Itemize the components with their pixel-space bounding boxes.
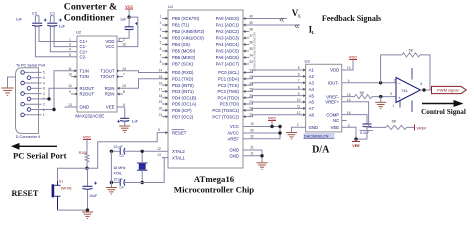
svg-text:PB3 (AIN1/OC0): PB3 (AIN1/OC0) bbox=[172, 36, 204, 41]
wire U1 PC3 to U3 A4 bbox=[249, 89, 301, 91]
svg-text:16 MHz: 16 MHz bbox=[113, 166, 126, 170]
opamp power pins bbox=[411, 68, 413, 80]
svg-text:1: 1 bbox=[393, 104, 395, 108]
svg-text:Control Signal: Control Signal bbox=[421, 108, 466, 116]
svg-text:35: 35 bbox=[249, 47, 253, 51]
svg-text:PC6 (TOSC1): PC6 (TOSC1) bbox=[212, 108, 239, 113]
svg-text:Conditioner: Conditioner bbox=[64, 12, 115, 23]
wire PA0 to VL bbox=[249, 18, 287, 20]
svg-text:PA6 (ADC6): PA6 (ADC6) bbox=[216, 55, 240, 60]
wire opamp output bbox=[420, 89, 434, 91]
svg-text:PA1 (ADC1): PA1 (ADC1) bbox=[216, 23, 240, 28]
svg-text:14: 14 bbox=[122, 67, 126, 71]
svg-text:AVCC: AVCC bbox=[227, 131, 239, 136]
ground (U3) bbox=[286, 133, 297, 140]
svg-text:PD3 (INT1): PD3 (INT1) bbox=[172, 89, 194, 94]
wire U3 COMP to cap bbox=[347, 115, 367, 124]
svg-text:PD7 (OC2): PD7 (OC2) bbox=[172, 114, 194, 119]
svg-text:A5: A5 bbox=[309, 93, 315, 98]
svg-text:13: 13 bbox=[68, 103, 72, 107]
svg-text:33: 33 bbox=[249, 60, 253, 64]
svg-text:37: 37 bbox=[249, 34, 253, 38]
U3 part label DAC0808LCN bbox=[304, 133, 335, 138]
svg-text:21: 21 bbox=[159, 113, 163, 117]
svg-text:7: 7 bbox=[123, 73, 125, 77]
svg-text:16: 16 bbox=[159, 81, 163, 85]
svg-text:PD6 (ICP): PD6 (ICP) bbox=[172, 108, 192, 113]
IC U2 MAX232ACSE box bbox=[77, 36, 117, 112]
svg-text:IOUT-: IOUT- bbox=[328, 81, 340, 86]
ground (crystal) bbox=[106, 188, 117, 195]
capacitor 1uF (U2 V-) bbox=[120, 118, 129, 121]
svg-text:3: 3 bbox=[43, 92, 45, 96]
ground (reset) bbox=[82, 212, 93, 219]
J1 pin circle right 3 bbox=[27, 97, 31, 101]
node U2 VCC junction bbox=[127, 15, 130, 18]
svg-text:VREF+: VREF+ bbox=[325, 100, 339, 105]
power VCC (U3 VDD) bbox=[349, 55, 357, 59]
svg-text:A2: A2 bbox=[309, 74, 315, 79]
capacitor C4 10uF bbox=[87, 168, 89, 186]
svg-text:30: 30 bbox=[250, 129, 254, 133]
control signal arrow bbox=[422, 103, 455, 105]
wire U1 VCC/AVCC/AREF join bbox=[249, 127, 280, 139]
svg-text:9: 9 bbox=[43, 76, 45, 80]
svg-text:4: 4 bbox=[69, 48, 71, 52]
svg-text:VDD: VDD bbox=[330, 68, 339, 73]
svg-text:VCC: VCC bbox=[230, 124, 239, 129]
svg-text:T1OUT: T1OUT bbox=[100, 68, 114, 73]
wire C2 left leg to U2 C2- bbox=[34, 16, 36, 24]
wire U1 PC6 to U3 A7 bbox=[249, 108, 301, 110]
svg-text:13: 13 bbox=[157, 153, 161, 157]
svg-text:S1: S1 bbox=[59, 180, 63, 184]
svg-text:9: 9 bbox=[158, 128, 160, 132]
opamp pin 1 stub bbox=[399, 101, 401, 108]
svg-text:VCC: VCC bbox=[349, 55, 357, 59]
wire U3 GND to ground bbox=[292, 127, 301, 132]
svg-text:PA2 (ADC2): PA2 (ADC2) bbox=[216, 29, 240, 34]
svg-text:13: 13 bbox=[122, 84, 126, 88]
J1 pin circle left 3 bbox=[21, 92, 25, 96]
ground (U1) bbox=[257, 163, 268, 170]
wire VCC node to U2 VCC pin16 bbox=[123, 17, 138, 46]
svg-text:Converter &: Converter & bbox=[64, 1, 117, 12]
J1 pin circle left 5 bbox=[21, 113, 25, 117]
svg-text:2: 2 bbox=[160, 21, 162, 25]
IC U3 DAC0808 box bbox=[306, 64, 342, 132]
svg-text:«: « bbox=[279, 14, 284, 24]
svg-text:PB2 (AIN0/INT2): PB2 (AIN0/INT2) bbox=[172, 29, 205, 34]
J1 pin circle right 2 bbox=[27, 87, 31, 91]
svg-text:PB1 (T1): PB1 (T1) bbox=[172, 23, 190, 28]
svg-text:4: 4 bbox=[160, 34, 162, 38]
power VCC (U2 supply) bbox=[125, 5, 133, 9]
svg-text:12: 12 bbox=[68, 84, 72, 88]
svg-text:PC7 (TOSC2): PC7 (TOSC2) bbox=[212, 114, 239, 119]
svg-text:PA0 (ADC0): PA0 (ADC0) bbox=[216, 16, 240, 21]
wire PA1 to IL bbox=[249, 24, 300, 26]
svg-text:5: 5 bbox=[69, 53, 71, 57]
svg-text:38: 38 bbox=[249, 28, 253, 32]
power VCC (U1) bbox=[268, 116, 276, 120]
wire J1 shield to ground bbox=[8, 77, 16, 88]
svg-text:7: 7 bbox=[160, 54, 162, 58]
svg-text:VEE: VEE bbox=[106, 105, 115, 110]
svg-text:T1IN: T1IN bbox=[80, 68, 89, 73]
svg-text:5K: 5K bbox=[409, 49, 414, 53]
svg-text:VCC: VCC bbox=[268, 116, 276, 120]
svg-text:RESET: RESET bbox=[172, 130, 187, 135]
svg-text:PWM signal: PWM signal bbox=[437, 88, 458, 93]
wire U1 GND join bbox=[249, 150, 262, 156]
svg-text:19: 19 bbox=[159, 100, 163, 104]
svg-text:PD2 (INT0): PD2 (INT0) bbox=[172, 83, 194, 88]
svg-text:A3: A3 bbox=[309, 81, 315, 86]
svg-text:L: L bbox=[298, 14, 301, 19]
wire U1 PC5 to U3 A6 bbox=[249, 102, 301, 104]
svg-text:5K: 5K bbox=[392, 120, 397, 124]
svg-text:PC3 (TMS): PC3 (TMS) bbox=[218, 89, 240, 94]
svg-text:1uF: 1uF bbox=[132, 119, 139, 123]
svg-text:XTAL2: XTAL2 bbox=[172, 149, 185, 154]
svg-text:PD4 (OC1B): PD4 (OC1B) bbox=[172, 95, 197, 100]
svg-text:PD5 (OC1A): PD5 (OC1A) bbox=[172, 102, 197, 107]
svg-text:6: 6 bbox=[123, 103, 125, 107]
svg-text:PB4 (SS): PB4 (SS) bbox=[172, 42, 190, 47]
J1 pin circle left 2 bbox=[21, 81, 25, 85]
svg-text:GND: GND bbox=[229, 154, 239, 159]
svg-text:R2IN: R2IN bbox=[105, 92, 115, 97]
svg-text:22 pF: 22 pF bbox=[114, 145, 124, 149]
wire C1 left leg to U2 C2+ bbox=[49, 16, 51, 24]
svg-text:VREF: VREF bbox=[417, 126, 428, 130]
svg-text:4: 4 bbox=[43, 81, 45, 85]
svg-text:5: 5 bbox=[160, 41, 162, 45]
svg-text:9: 9 bbox=[69, 90, 71, 94]
svg-text:Feedback Signals: Feedback Signals bbox=[322, 14, 381, 23]
svg-text:−: − bbox=[398, 81, 401, 86]
svg-text:U1: U1 bbox=[168, 4, 174, 9]
svg-text:A7: A7 bbox=[309, 106, 315, 111]
svg-text:741: 741 bbox=[401, 88, 408, 93]
svg-text:ATmega16: ATmega16 bbox=[194, 174, 235, 184]
svg-text:2: 2 bbox=[394, 78, 396, 82]
svg-text:6: 6 bbox=[160, 47, 162, 51]
svg-text:+: + bbox=[398, 96, 401, 101]
wire U1 PC2 to U3 A3 bbox=[249, 83, 301, 85]
svg-text:PC2 (TCK): PC2 (TCK) bbox=[218, 83, 240, 88]
svg-text:PA3 (ADC3): PA3 (ADC3) bbox=[216, 36, 240, 41]
svg-text:PA7 (ADC7): PA7 (ADC7) bbox=[216, 62, 240, 67]
svg-text:C3: C3 bbox=[120, 154, 124, 158]
svg-text:11: 11 bbox=[68, 67, 72, 71]
svg-text:PB7 (SCK): PB7 (SCK) bbox=[172, 62, 194, 67]
svg-text:PC0 (SCL): PC0 (SCL) bbox=[218, 70, 239, 75]
svg-text:12: 12 bbox=[157, 147, 161, 151]
svg-text:Microcontroller Chip: Microcontroller Chip bbox=[174, 184, 254, 194]
wire U1 PC1 to U3 A2 bbox=[249, 76, 301, 78]
svg-text:PB5 (MOSI): PB5 (MOSI) bbox=[172, 49, 196, 54]
svg-text:34: 34 bbox=[249, 54, 253, 58]
svg-text:C1: C1 bbox=[50, 11, 56, 16]
svg-text:2: 2 bbox=[43, 103, 45, 107]
svg-text:1: 1 bbox=[69, 38, 71, 42]
node reset junction bbox=[85, 167, 88, 170]
wire C2 right leg to U2 C1+ bbox=[39, 27, 71, 42]
svg-text:PD0 (RXD): PD0 (RXD) bbox=[172, 70, 194, 75]
svg-text:D/A: D/A bbox=[312, 145, 330, 156]
svg-text:10: 10 bbox=[250, 122, 254, 126]
wire U2 T1OUT to U1 PD0 bbox=[123, 71, 162, 73]
wire switch bottom rail bbox=[58, 209, 88, 211]
svg-text:A4: A4 bbox=[309, 87, 315, 92]
svg-text:T2IN: T2IN bbox=[80, 74, 89, 79]
svg-text:2: 2 bbox=[297, 123, 299, 127]
J1 pin circle left 1 bbox=[21, 71, 25, 75]
svg-text:U2: U2 bbox=[76, 30, 82, 35]
wire U3 IOUT- to opamp inverting input bbox=[347, 82, 396, 84]
svg-text:AREF: AREF bbox=[228, 137, 240, 142]
svg-text:T2OUT: T2OUT bbox=[100, 74, 114, 79]
svg-text:NC: NC bbox=[333, 118, 339, 123]
svg-text:1uF: 1uF bbox=[59, 25, 66, 29]
wire reset node to U1 RESET pin9 bbox=[87, 133, 162, 169]
svg-text:6: 6 bbox=[420, 82, 422, 86]
svg-text:3: 3 bbox=[390, 92, 392, 96]
svg-text:A1: A1 bbox=[309, 68, 315, 73]
svg-text:A8: A8 bbox=[309, 113, 315, 118]
svg-text:PA5 (ADC5): PA5 (ADC5) bbox=[216, 49, 240, 54]
svg-text:ADC7: ADC7 bbox=[253, 65, 257, 72]
svg-text:10uF: 10uF bbox=[89, 194, 98, 198]
svg-text:PC5 (TDI): PC5 (TDI) bbox=[220, 102, 240, 107]
net flag PWM signal bbox=[432, 86, 467, 93]
svg-text:DAC0808LCN: DAC0808LCN bbox=[304, 133, 329, 138]
svg-text:8: 8 bbox=[123, 90, 125, 94]
svg-text:22 pF: 22 pF bbox=[114, 178, 124, 182]
svg-text:MAX232ACSE: MAX232ACSE bbox=[75, 113, 104, 118]
arrow to PC serial port bbox=[18, 145, 57, 147]
wire U2 GND stub bbox=[65, 106, 72, 108]
wire U1 PC7 to U3 A8 bbox=[249, 115, 301, 117]
svg-text:D Connector 9: D Connector 9 bbox=[16, 135, 40, 139]
svg-text:PC Serial Port: PC Serial Port bbox=[13, 151, 67, 161]
svg-text:1uF: 1uF bbox=[120, 18, 127, 22]
svg-text:PC4 (TDO): PC4 (TDO) bbox=[218, 95, 240, 100]
wire U3 VEE down bbox=[347, 127, 356, 139]
svg-text:PD1 (TXD): PD1 (TXD) bbox=[172, 77, 194, 82]
svg-text:3: 3 bbox=[69, 43, 71, 47]
svg-text:U3: U3 bbox=[305, 59, 311, 64]
svg-text:GND: GND bbox=[309, 125, 319, 130]
svg-text:36: 36 bbox=[249, 41, 253, 45]
wire J1 pin6 to U2 T1IN bbox=[42, 71, 72, 110]
svg-text:VEE: VEE bbox=[352, 144, 360, 148]
wire cap to U2 VDD pin2 bbox=[119, 31, 129, 42]
svg-text:5: 5 bbox=[43, 71, 45, 75]
svg-text:C4: C4 bbox=[120, 185, 124, 189]
svg-text:8: 8 bbox=[43, 87, 45, 91]
svg-text:PB6 (MISO): PB6 (MISO) bbox=[172, 55, 196, 60]
svg-text:20: 20 bbox=[159, 107, 163, 111]
svg-text:1: 1 bbox=[160, 15, 162, 19]
svg-text:PA4 (ADC4): PA4 (ADC4) bbox=[216, 42, 240, 47]
svg-text:COMP: COMP bbox=[326, 112, 339, 117]
J1 pin circle right 1 bbox=[27, 76, 31, 80]
svg-text:PB0 (XCK/T0): PB0 (XCK/T0) bbox=[172, 16, 200, 21]
svg-text:C2: C2 bbox=[32, 11, 38, 16]
J1 pin circle right 4 bbox=[27, 108, 31, 112]
svg-text:PC1 (SDA): PC1 (SDA) bbox=[218, 77, 240, 82]
svg-text:GND: GND bbox=[80, 105, 90, 110]
svg-text:To PC Serial Port: To PC Serial Port bbox=[16, 63, 46, 67]
svg-text:«: « bbox=[295, 20, 300, 30]
ground (opamp + input) bbox=[380, 97, 382, 103]
ground (J1 shield) bbox=[1, 88, 13, 95]
svg-text:31: 31 bbox=[250, 146, 254, 150]
svg-text:GND: GND bbox=[229, 148, 239, 153]
svg-text:0.1uF: 0.1uF bbox=[360, 131, 370, 135]
wire VREF+ to 5K bbox=[347, 102, 386, 128]
power VEE label bbox=[355, 139, 357, 141]
IC U1 ATmega16 box bbox=[168, 10, 243, 168]
svg-text:R2OUT: R2OUT bbox=[80, 92, 95, 97]
svg-text:32: 32 bbox=[250, 134, 254, 138]
svg-text:C2-: C2- bbox=[80, 54, 87, 59]
svg-text:XTAL1: XTAL1 bbox=[172, 155, 185, 160]
svg-text:16: 16 bbox=[122, 43, 126, 47]
J1 pin circle left 4 bbox=[21, 102, 25, 106]
wire XTAL2 row bbox=[125, 150, 162, 152]
svg-text:1: 1 bbox=[43, 113, 45, 117]
svg-text:R1OUT: R1OUT bbox=[80, 86, 95, 91]
svg-text:VCC: VCC bbox=[125, 5, 133, 9]
wire U1 PC0 to U3 A1 bbox=[249, 70, 301, 73]
wire U2 R1IN to U1 PD1 bbox=[123, 79, 162, 88]
svg-text:SW-PB: SW-PB bbox=[61, 187, 73, 191]
wire U1 PC4 to U3 A5 bbox=[249, 96, 301, 98]
svg-text:1uF: 1uF bbox=[15, 18, 22, 22]
svg-text:8: 8 bbox=[160, 60, 162, 64]
svg-text:10: 10 bbox=[68, 73, 72, 77]
svg-text:11: 11 bbox=[250, 151, 254, 155]
wire XTAL1 row bbox=[125, 158, 164, 183]
svg-text:R1IN: R1IN bbox=[105, 86, 115, 91]
capacitor 0.1uF (COMP) bbox=[363, 124, 372, 127]
svg-text:VEE: VEE bbox=[331, 125, 340, 130]
svg-text:18: 18 bbox=[159, 94, 163, 98]
wire C1 right leg to U2 C1- bbox=[54, 27, 71, 47]
svg-text:XTAL: XTAL bbox=[113, 171, 122, 175]
wire U2 VEE pin6 to cap bbox=[123, 107, 125, 118]
power VCC (reset) bbox=[83, 135, 91, 139]
svg-text:L: L bbox=[312, 30, 315, 35]
op-amp U4 741 bbox=[396, 78, 420, 103]
wire crystal caps common to ground bbox=[110, 151, 112, 187]
wire J1 pin7 to U2 R1OUT bbox=[42, 88, 72, 99]
svg-text:RESET: RESET bbox=[12, 189, 39, 198]
svg-text:17: 17 bbox=[159, 88, 163, 92]
svg-text:VCC: VCC bbox=[83, 135, 91, 139]
svg-text:A6: A6 bbox=[309, 100, 315, 105]
svg-text:VCC: VCC bbox=[105, 44, 114, 49]
wire reset node to switch bbox=[58, 168, 88, 181]
ground (U2 VEE cap) bbox=[119, 126, 130, 133]
svg-text:3: 3 bbox=[160, 28, 162, 32]
